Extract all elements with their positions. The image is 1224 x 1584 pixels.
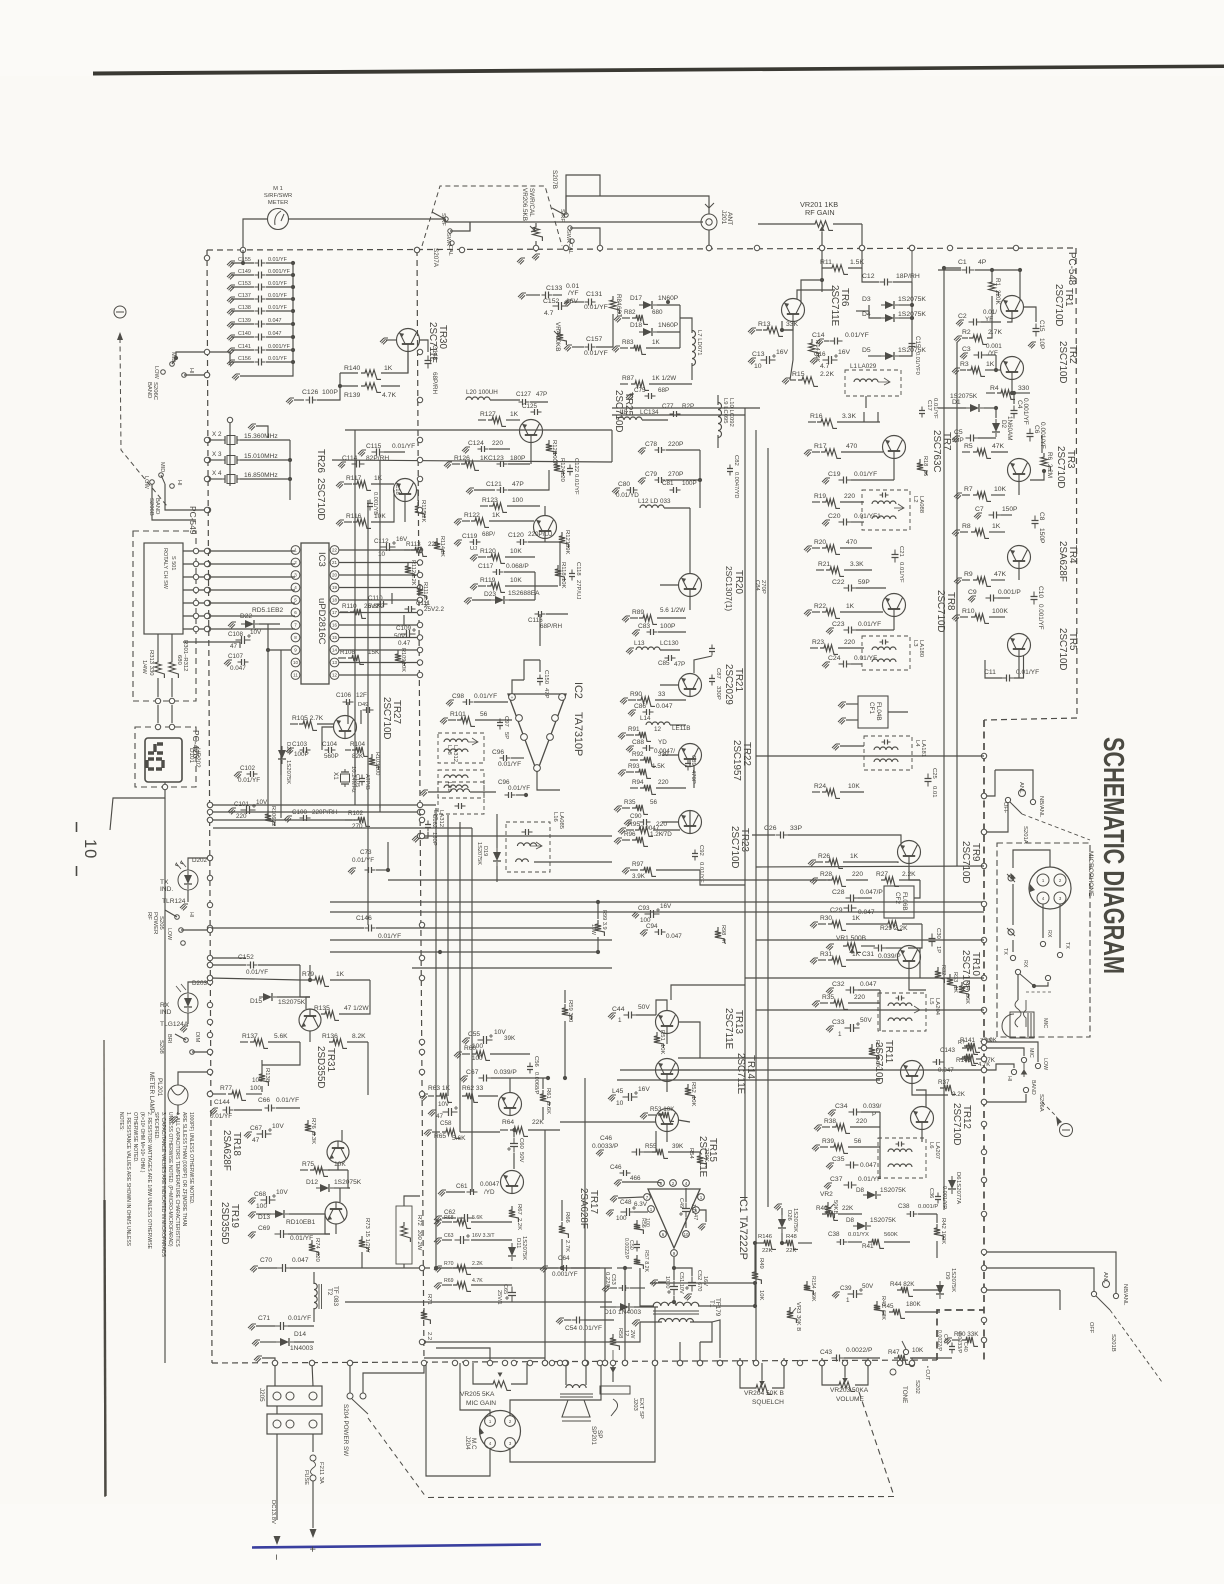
junction board edge bbox=[207, 1019, 212, 1024]
wire TR2 emitter bbox=[1011, 379, 1013, 393]
svg-text:50V: 50V bbox=[394, 633, 406, 640]
svg-text:220P/UJ: 220P/UJ bbox=[528, 531, 552, 538]
svg-text:FUSE: FUSE bbox=[303, 1470, 309, 1485]
svg-text:L10 LC092: L10 LC092 bbox=[728, 398, 734, 427]
diode D11b bbox=[508, 1243, 516, 1261]
svg-text:0.001/P: 0.001/P bbox=[918, 1204, 938, 1210]
resistor R35 bbox=[820, 1002, 828, 1004]
svg-text:R45: R45 bbox=[882, 1303, 894, 1310]
svg-text:C49: C49 bbox=[678, 1198, 684, 1208]
svg-text:R37: R37 bbox=[938, 1079, 950, 1086]
junction top edge bbox=[909, 245, 914, 250]
capacitor C89 bbox=[687, 760, 689, 771]
resistor R113 bbox=[404, 549, 410, 551]
svg-text:470: 470 bbox=[846, 443, 858, 450]
svg-text:R99 3.9: R99 3.9 bbox=[601, 910, 607, 930]
svg-text:R27: R27 bbox=[876, 871, 888, 878]
svg-text:2SC711E: 2SC711E bbox=[829, 285, 840, 327]
junction panel edge bbox=[981, 1211, 986, 1216]
svg-text:5P: 5P bbox=[503, 732, 509, 739]
svg-text:C77: C77 bbox=[662, 403, 674, 410]
svg-text:4. ALL CAPACITORS TEMPERATURE: 4. ALL CAPACITORS TEMPERATURE CHARACTERI… bbox=[174, 1112, 180, 1247]
wire display down bbox=[110, 782, 165, 830]
svg-text:MID: MID bbox=[159, 462, 165, 472]
svg-text:C152: C152 bbox=[543, 298, 559, 305]
svg-text:C64: C64 bbox=[558, 1255, 570, 1262]
coil L1 box bbox=[845, 370, 901, 396]
svg-text:R35: R35 bbox=[624, 799, 636, 806]
svg-text:/YF: /YF bbox=[568, 290, 579, 297]
junction board edge bbox=[207, 975, 212, 980]
svg-text:1K: 1K bbox=[492, 512, 501, 519]
svg-text:VR205 5KA: VR205 5KA bbox=[460, 1391, 495, 1398]
svg-text:L17: L17 bbox=[432, 810, 438, 820]
svg-text:CF1: CF1 bbox=[868, 702, 875, 714]
svg-text:R41: R41 bbox=[862, 1243, 874, 1250]
wire meter right bbox=[289, 218, 446, 220]
junction board edge bbox=[204, 613, 209, 618]
cap bank ground bbox=[232, 374, 240, 380]
junction bottom edge bbox=[753, 1360, 758, 1365]
resistor R142 bbox=[962, 1054, 978, 1064]
capacitor C3 bbox=[974, 354, 987, 356]
wire IC3 right row 4 bbox=[339, 599, 420, 601]
inner partition dashed bus bbox=[417, 250, 424, 1363]
capacitor C4 bbox=[1013, 406, 1015, 419]
wire h880 bbox=[388, 879, 830, 881]
svg-text:R35: R35 bbox=[822, 994, 834, 1001]
mic wiring left bbox=[1012, 884, 1014, 925]
resistor R59 bbox=[562, 1004, 572, 1020]
diode D3 bbox=[881, 301, 899, 309]
component C63 bbox=[434, 1238, 442, 1244]
resistor R112 bbox=[405, 562, 415, 578]
svg-text:15.360MHz: 15.360MHz bbox=[244, 433, 278, 440]
wire J205 minus bbox=[276, 1406, 278, 1414]
resistor R139 bbox=[340, 385, 358, 387]
junction board edge bbox=[207, 817, 212, 822]
scan artifact left crease bbox=[104, 1040, 105, 1497]
resistor R6 bbox=[1041, 453, 1051, 471]
svg-text:16: 16 bbox=[332, 623, 338, 628]
mic switch bbox=[1015, 969, 1020, 974]
svg-text:C93: C93 bbox=[638, 905, 650, 912]
svg-text:1K: 1K bbox=[846, 603, 855, 610]
svg-text:100: 100 bbox=[472, 1055, 483, 1062]
capacitor C34 bbox=[849, 1111, 862, 1113]
svg-text:C46: C46 bbox=[610, 1164, 622, 1171]
rotary switch S501 box bbox=[144, 543, 183, 634]
svg-text:1N4003: 1N4003 bbox=[290, 1345, 313, 1352]
switch S207A contacts bbox=[444, 217, 448, 221]
resistor R89 bbox=[630, 617, 638, 619]
capacitor C6 bbox=[1029, 429, 1031, 442]
wire h836 bbox=[420, 835, 612, 837]
IC3 pin 7 bbox=[291, 621, 300, 630]
capacitor C137 bbox=[227, 297, 235, 303]
svg-text:15.010MHz: 15.010MHz bbox=[244, 453, 278, 460]
svg-text:S 501: S 501 bbox=[170, 556, 176, 570]
panel dashed diagonal lower left bbox=[368, 1418, 426, 1497]
wire J204 pins bbox=[510, 1363, 601, 1416]
transistor TR6 bbox=[782, 299, 805, 322]
svg-text:C75: C75 bbox=[634, 387, 646, 394]
svg-text:C121: C121 bbox=[486, 481, 502, 488]
diode D10 bbox=[616, 1303, 634, 1311]
junction bottom edge bbox=[309, 1360, 314, 1365]
svg-text:150P: 150P bbox=[1002, 506, 1018, 513]
wire tr23 base bbox=[662, 821, 679, 823]
wire misc ar bbox=[262, 1042, 300, 1065]
panel boundary heavy corner bbox=[937, 1310, 984, 1360]
svg-text:TX: TX bbox=[1002, 948, 1008, 955]
IC1 triangle bbox=[648, 1189, 700, 1248]
svg-text:C141: C141 bbox=[238, 344, 251, 350]
capacitor C55 bbox=[478, 1039, 493, 1041]
capacitor C114 bbox=[352, 463, 365, 465]
resistor R26 bbox=[815, 861, 823, 863]
svg-text:TLR124: TLR124 bbox=[162, 898, 186, 905]
svg-text:RF GAIN: RF GAIN bbox=[805, 208, 835, 217]
capacitor C20 bbox=[839, 521, 852, 523]
transistor TR28 bbox=[520, 420, 543, 443]
svg-text:R4: R4 bbox=[990, 385, 999, 392]
IC3 pin 18 bbox=[330, 596, 339, 605]
mic connector bbox=[1029, 867, 1071, 909]
svg-text:R136: R136 bbox=[322, 1033, 338, 1040]
svg-text:56: 56 bbox=[922, 470, 928, 476]
svg-text:0.001/YF: 0.001/YF bbox=[268, 269, 291, 275]
svg-text:1K: 1K bbox=[852, 951, 861, 958]
resistor R98 bbox=[715, 927, 725, 943]
wire left col v2 bbox=[280, 650, 282, 818]
svg-text:1K: 1K bbox=[384, 365, 393, 372]
svg-text:C9: C9 bbox=[968, 589, 977, 596]
microphone dashed box bbox=[997, 843, 1090, 1037]
wire misc be bbox=[469, 222, 471, 231]
svg-text:BAND: BAND bbox=[146, 382, 152, 398]
svg-text:IC2: IC2 bbox=[572, 682, 584, 699]
junction board edge bbox=[207, 1069, 212, 1074]
svg-text:M 1: M 1 bbox=[273, 186, 283, 192]
capacitor C36 bbox=[937, 1193, 939, 1204]
svg-text:X1: X1 bbox=[332, 772, 339, 780]
svg-text:18: 18 bbox=[332, 598, 338, 603]
wire S201B left bbox=[984, 1268, 1094, 1291]
svg-text:R59 330: R59 330 bbox=[567, 1000, 573, 1023]
dashed S201B link bbox=[1110, 1310, 1162, 1382]
resistor R57b bbox=[610, 1334, 620, 1350]
junction panel edge bbox=[981, 753, 986, 758]
coil L17 box bbox=[438, 782, 484, 814]
junction top edge bbox=[533, 245, 538, 250]
svg-text:2SD355D: 2SD355D bbox=[315, 1046, 326, 1088]
svg-text:IC1 TA7222P: IC1 TA7222P bbox=[737, 1196, 749, 1260]
capacitor C62 bbox=[434, 1216, 442, 1222]
capacitor C28 bbox=[846, 897, 859, 899]
svg-text:D8: D8 bbox=[856, 1187, 865, 1194]
svg-text:M.C: M.C bbox=[470, 1438, 477, 1450]
svg-text:16V: 16V bbox=[776, 349, 789, 356]
svg-text:R139: R139 bbox=[344, 392, 360, 399]
IC3 pin 15 bbox=[330, 633, 339, 642]
svg-text:C108: C108 bbox=[228, 631, 244, 638]
capacitor C65 bbox=[511, 1287, 513, 1302]
wire misc am bbox=[322, 727, 334, 750]
junction partition bbox=[419, 1039, 424, 1044]
svg-text:D3: D3 bbox=[862, 296, 871, 303]
junction partition bbox=[417, 437, 422, 442]
svg-text:22: 22 bbox=[332, 548, 338, 553]
IC3 pin 5 bbox=[291, 596, 300, 605]
crystal X3 bbox=[222, 459, 240, 461]
svg-text:10K: 10K bbox=[848, 783, 860, 790]
svg-text:18P/RH: 18P/RH bbox=[896, 273, 920, 280]
junction bottom edge bbox=[347, 1360, 352, 1365]
svg-text:C133: C133 bbox=[546, 285, 562, 292]
junction panel edge bbox=[981, 1121, 986, 1126]
svg-text:R66: R66 bbox=[564, 1212, 570, 1224]
transistor TR14 bbox=[656, 1059, 679, 1082]
svg-text:100P: 100P bbox=[660, 623, 676, 630]
junction bottom edge bbox=[819, 1360, 824, 1365]
junction board edge bbox=[204, 476, 209, 481]
svg-text:22K: 22K bbox=[532, 1119, 544, 1126]
wire tr22 base bbox=[662, 754, 679, 756]
svg-text:ATP/B: ATP/B bbox=[364, 774, 370, 790]
capacitor C15b bbox=[911, 339, 913, 352]
svg-text:47: 47 bbox=[436, 1113, 444, 1120]
svg-text:L13: L13 bbox=[634, 640, 645, 647]
svg-text:C6: C6 bbox=[1033, 425, 1040, 434]
svg-text:C80: C80 bbox=[618, 481, 630, 488]
resistor R104 bbox=[345, 749, 351, 751]
wire misc p bbox=[908, 924, 922, 948]
svg-text:1K: 1K bbox=[852, 915, 861, 922]
svg-text:LA180: LA180 bbox=[918, 640, 924, 658]
wire tr6 bus down bbox=[790, 321, 793, 380]
junction panel edge bbox=[981, 1007, 986, 1012]
switch S202 TONE bbox=[903, 1349, 908, 1354]
wire v565 bbox=[564, 1032, 566, 1078]
svg-text:+: + bbox=[511, 695, 514, 700]
wire tr6 e bbox=[783, 321, 793, 330]
svg-text:5.6 1/2W: 5.6 1/2W bbox=[660, 607, 685, 614]
junction bottom edge bbox=[797, 1360, 802, 1365]
svg-text:100: 100 bbox=[644, 1218, 650, 1227]
svg-text:C48: C48 bbox=[620, 1199, 632, 1206]
resistor R92 bbox=[630, 759, 638, 761]
capacitor C57 bbox=[479, 1077, 492, 1079]
svg-text:R93: R93 bbox=[628, 763, 640, 770]
capacitor C117 bbox=[493, 571, 504, 573]
svg-text:RD5.1EB2: RD5.1EB2 bbox=[252, 607, 283, 614]
junction panel edge bbox=[981, 1039, 986, 1044]
mic element bbox=[1010, 1012, 1034, 1038]
svg-text:3.3K: 3.3K bbox=[310, 1132, 316, 1144]
resistor R39 bbox=[820, 1146, 828, 1148]
svg-text:R8: R8 bbox=[962, 523, 971, 530]
potentiometer VR204 bbox=[752, 1385, 772, 1395]
wire S501 row 2 bbox=[183, 563, 295, 565]
svg-text:1N60AM: 1N60AM bbox=[1006, 416, 1013, 441]
svg-text:0.001: 0.001 bbox=[986, 343, 1002, 350]
junction top edge bbox=[947, 245, 952, 250]
svg-text:/YD: /YD bbox=[484, 1189, 495, 1196]
transistor TR30 bbox=[397, 329, 420, 352]
junction panel edge bbox=[981, 1056, 986, 1061]
transistor TR7 bbox=[883, 436, 906, 459]
resistor R73 bbox=[359, 1236, 369, 1252]
svg-text:0.0033/P: 0.0033/P bbox=[592, 1143, 619, 1150]
svg-text:OFF: OFF bbox=[1088, 1322, 1094, 1334]
wire top mid h2 bbox=[332, 460, 612, 462]
wire misc aw bbox=[348, 1170, 350, 1188]
board PC-548 outline top edge bbox=[207, 248, 1076, 250]
svg-text:12: 12 bbox=[332, 673, 338, 678]
svg-text:1K: 1K bbox=[439, 550, 445, 557]
svg-text:PC-548: PC-548 bbox=[1066, 252, 1077, 286]
wire h978 bbox=[210, 978, 300, 980]
svg-text:180K: 180K bbox=[906, 1301, 922, 1308]
svg-text:C28: C28 bbox=[832, 889, 845, 896]
svg-text:R1: R1 bbox=[994, 278, 1001, 287]
wire speaker bbox=[565, 1363, 567, 1385]
resistor R62 bbox=[462, 1093, 478, 1103]
transistor TR3 bbox=[1008, 459, 1031, 482]
coil L12 bbox=[640, 505, 664, 508]
svg-text:1S2075K: 1S2075K bbox=[476, 842, 482, 865]
connector J204 MIC bbox=[480, 1411, 521, 1452]
wire misc f bbox=[694, 656, 712, 673]
svg-text:MIC: MIC bbox=[1028, 1048, 1034, 1058]
svg-text:R5: R5 bbox=[964, 443, 973, 450]
resistor R142b bbox=[960, 1056, 976, 1066]
junction bottom edge bbox=[842, 1360, 847, 1365]
svg-text:L20 100UH: L20 100UH bbox=[466, 389, 498, 396]
resistor R123 bbox=[480, 505, 488, 507]
junction partition bbox=[419, 1069, 424, 1074]
component R69 bbox=[434, 1283, 442, 1289]
svg-text:R121: R121 bbox=[564, 530, 570, 544]
IC3 pin 4 bbox=[291, 583, 300, 592]
svg-text:D9: D9 bbox=[944, 1272, 950, 1280]
svg-text:0.01/YD: 0.01/YD bbox=[616, 492, 639, 499]
resistor R117 bbox=[344, 483, 352, 485]
resistor R49 bbox=[752, 1268, 762, 1284]
resistor R43 bbox=[874, 1301, 884, 1315]
junction partition bbox=[417, 802, 422, 807]
svg-text:R9: R9 bbox=[964, 571, 973, 578]
capacitor C84 bbox=[711, 645, 713, 656]
svg-text:HI: HI bbox=[188, 368, 194, 374]
junction board edge bbox=[204, 507, 209, 512]
svg-text:3. CAPACITANCE VALUES ARE INDI: 3. CAPACITANCE VALUES ARE INDICATED IN M… bbox=[160, 1112, 166, 1258]
svg-text:D5: D5 bbox=[862, 347, 871, 354]
svg-text:C149: C149 bbox=[238, 269, 251, 275]
svg-text:D101: D101 bbox=[188, 748, 195, 764]
capacitor C19 bbox=[839, 479, 852, 481]
junction partition bbox=[419, 975, 424, 980]
wire v625 bbox=[624, 1268, 626, 1360]
wire c1 left bbox=[944, 267, 961, 269]
svg-text:R29 2.2K: R29 2.2K bbox=[880, 925, 908, 932]
svg-text:LA029: LA029 bbox=[858, 363, 877, 370]
svg-text:5.6K: 5.6K bbox=[274, 1033, 288, 1040]
junction board edge bbox=[204, 626, 209, 631]
page number 10 bbox=[76, 822, 78, 876]
svg-text:BRI: BRI bbox=[166, 1034, 172, 1044]
transistor TR2 bbox=[1001, 357, 1024, 380]
capacitor C69 bbox=[275, 1233, 290, 1235]
diode D6 bbox=[948, 1176, 956, 1194]
svg-text:2.2K: 2.2K bbox=[472, 1261, 483, 1267]
wire h912 bbox=[330, 911, 984, 913]
svg-text:C35: C35 bbox=[832, 1156, 845, 1163]
svg-text:R89: R89 bbox=[632, 609, 644, 616]
svg-text:20: 20 bbox=[332, 573, 338, 578]
wire tr7 down bbox=[893, 459, 895, 480]
resistor R44 bbox=[897, 1287, 913, 1297]
svg-text:R71: R71 bbox=[426, 1294, 432, 1305]
svg-text:C40: C40 bbox=[962, 1342, 968, 1352]
resistor R52 bbox=[685, 1084, 695, 1100]
svg-text:R118: R118 bbox=[560, 562, 566, 576]
svg-text:J203: J203 bbox=[632, 1398, 638, 1411]
svg-text:R84: R84 bbox=[615, 294, 622, 306]
resistor R13 bbox=[756, 329, 762, 331]
svg-text:L5: L5 bbox=[928, 998, 934, 1005]
svg-text:220K: 220K bbox=[994, 290, 1001, 306]
svg-text:10K: 10K bbox=[690, 1096, 696, 1107]
svg-text:R117: R117 bbox=[346, 475, 362, 482]
diode D18 bbox=[639, 328, 657, 336]
svg-text:100: 100 bbox=[616, 1215, 627, 1222]
svg-text:10K: 10K bbox=[510, 577, 522, 584]
wire ant bus down bbox=[861, 224, 863, 248]
wire h1358L bbox=[424, 1357, 545, 1359]
wire S206A bbox=[984, 1048, 1024, 1056]
coil L16 box bbox=[506, 822, 550, 872]
svg-text:2SC2029: 2SC2029 bbox=[723, 664, 734, 705]
svg-text:C125: C125 bbox=[522, 403, 538, 410]
svg-text:2SD355D: 2SD355D bbox=[219, 1202, 230, 1244]
transistor TR27 bbox=[334, 716, 357, 739]
wire tr12 chain bbox=[921, 1129, 923, 1142]
svg-text:TX: TX bbox=[1064, 942, 1070, 949]
IC3 pin 20 bbox=[330, 571, 339, 580]
svg-text:C81: C81 bbox=[662, 480, 674, 487]
svg-text:R82: R82 bbox=[624, 309, 636, 316]
svg-text:1000PF) UNLESS OTHERWISE NOTE: 1000PF) UNLESS OTHERWISE NOTED. bbox=[188, 1112, 194, 1204]
diode D22 bbox=[241, 620, 259, 628]
svg-text:LA312: LA312 bbox=[452, 745, 458, 762]
resistor R23 bbox=[810, 647, 818, 649]
svg-text:R101: R101 bbox=[450, 711, 466, 718]
svg-text:BAND: BAND bbox=[1030, 1080, 1036, 1095]
svg-text:LOW: LOW bbox=[153, 366, 159, 379]
svg-text:D20: D20 bbox=[285, 742, 291, 754]
junction board edge bbox=[207, 1049, 212, 1054]
board PC-426 outline bbox=[135, 727, 196, 787]
svg-text:L14: L14 bbox=[640, 715, 651, 722]
diode D19 bbox=[493, 848, 501, 866]
capacitor C153 bbox=[227, 285, 235, 291]
svg-text:C119: C119 bbox=[462, 533, 478, 540]
junction board edge bbox=[204, 255, 209, 260]
IC3 pin 22 bbox=[330, 546, 339, 555]
svg-text:C44: C44 bbox=[612, 1006, 625, 1013]
